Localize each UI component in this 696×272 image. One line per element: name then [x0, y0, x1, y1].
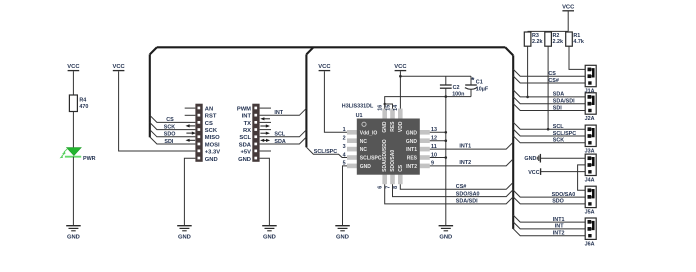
svg-text:VCC: VCC — [562, 4, 575, 10]
wire SDA to J2A pin1 — [513, 90, 588, 98]
wire bundle middle vertical — [306, 47, 313, 147]
svg-text:GND: GND — [524, 156, 536, 162]
svg-text:NC: NC — [360, 139, 368, 145]
svg-text:SDA/SDI/SDO: SDA/SDI/SDO — [382, 139, 388, 172]
ground GND3 — [262, 226, 277, 241]
svg-text:J5A: J5A — [585, 210, 595, 216]
wire VCC3 to U1 pin1 — [324, 71, 347, 132]
ground GND1 — [66, 226, 81, 241]
svg-text:470: 470 — [79, 104, 88, 110]
svg-text:CS: CS — [205, 121, 213, 127]
svg-text:SCL: SCL — [274, 132, 285, 138]
svg-text:SDA: SDA — [553, 92, 564, 98]
wire VCC4 to U1 pin14 and caps rail — [399, 71, 471, 109]
wire VCC5 to resistor rail — [528, 11, 569, 32]
svg-text:1: 1 — [343, 127, 346, 133]
jumper J3A — [585, 125, 597, 154]
svg-text:MISO: MISO — [205, 135, 220, 141]
wire INT2 to J6A pin3 — [513, 229, 588, 237]
arrow header1 CS (left) — [186, 124, 196, 127]
node VCC6 (J4A pin3, rotated) — [528, 168, 540, 176]
resistor R1 4.7k — [566, 32, 584, 46]
svg-text:SDA: SDA — [239, 142, 252, 148]
capacitor C2 100n — [440, 76, 465, 97]
svg-text:CS#: CS# — [456, 184, 467, 190]
wire AN stub — [185, 107, 196, 109]
svg-text:R3: R3 — [532, 33, 539, 39]
svg-text:15: 15 — [385, 105, 391, 111]
svg-text:AN: AN — [205, 106, 213, 112]
svg-text:SCL/SPC: SCL/SPC — [360, 156, 382, 162]
wire R3 to SDA net — [526, 46, 529, 98]
svg-text:3: 3 — [343, 144, 346, 150]
wire GND6 to J4A pin1 — [540, 157, 588, 159]
svg-text:2.2k: 2.2k — [553, 39, 564, 45]
svg-text:Vdd_IO: Vdd_IO — [360, 130, 378, 136]
arrow header2 RX (right) — [260, 132, 270, 135]
arrow header2 INT (left) — [260, 117, 270, 120]
wire CS# to J1A pin3 — [513, 76, 588, 84]
wire VCC1 to R4 — [72, 71, 74, 95]
svg-text:14: 14 — [393, 105, 399, 111]
svg-text:RST: RST — [205, 114, 217, 120]
wire SCK to J3A pin3 — [513, 136, 588, 144]
wire bundle right vertical — [512, 55, 514, 229]
svg-text:MOSI: MOSI — [205, 142, 220, 148]
resistor R3 2.2k — [524, 32, 542, 46]
svg-text:INT2: INT2 — [459, 160, 471, 166]
svg-text:R4: R4 — [79, 98, 86, 104]
svg-text:INT: INT — [274, 110, 283, 116]
wire PWM stub — [260, 107, 271, 109]
arrow header2 TX (right) — [260, 124, 270, 127]
node VCC2 (+3.3V) — [112, 64, 125, 70]
ground GND4 — [335, 226, 350, 241]
wire SDA from header2 to bundle — [260, 137, 307, 145]
svg-text:4.7k: 4.7k — [573, 39, 584, 45]
wire R1 to J1A pin1 — [569, 46, 588, 69]
svg-text:TX: TX — [244, 121, 252, 127]
jumper J5A — [585, 186, 597, 215]
wire SDI to header1 — [150, 137, 196, 145]
jumper J2A — [585, 93, 597, 122]
wire gnd drop to GND5 — [445, 95, 448, 225]
wire U1 pin13 to gnd drop — [430, 131, 446, 133]
svg-text:J2A: J2A — [585, 116, 595, 122]
svg-text:RES: RES — [407, 156, 418, 162]
wire LED to GND1 — [72, 157, 74, 226]
svg-text:2.2k: 2.2k — [532, 39, 543, 45]
wire SCL/SPC from bundle to U1 pin4 — [306, 147, 347, 157]
svg-text:SCL/SPC: SCL/SPC — [314, 149, 337, 155]
svg-text:RES: RES — [390, 121, 396, 132]
svg-text:C2: C2 — [453, 85, 460, 91]
wire CS to J1A pin2 — [513, 69, 588, 77]
svg-text:PWM: PWM — [237, 106, 251, 112]
svg-text:VCC: VCC — [528, 170, 539, 176]
wire SDA/SDI from U1 pin6 to bundle — [385, 184, 514, 205]
wire R2 to SCL net — [547, 46, 550, 130]
svg-text:R1: R1 — [573, 33, 580, 39]
op-amp U1 H3LIS331DL body — [342, 103, 437, 189]
svg-text:GND: GND — [406, 130, 418, 136]
svg-text:7: 7 — [385, 186, 391, 189]
svg-text:J4A: J4A — [585, 177, 595, 183]
node VCC3 (Vdd_IO) — [318, 64, 331, 70]
ground GND6 (J4A pin1, rotated) — [524, 154, 540, 163]
svg-text:H3LIS331DL: H3LIS331DL — [342, 103, 374, 109]
arrow header2 SDA (both) — [260, 139, 270, 142]
LED PWR — [60, 148, 96, 163]
wire SCL/SPC to J3A pin2 — [513, 129, 588, 137]
wire INT1 from U1 pin11 to bundle — [430, 142, 513, 149]
svg-text:10µF: 10µF — [476, 87, 489, 93]
jumper J6A — [585, 218, 597, 247]
svg-text:GND: GND — [178, 235, 191, 241]
svg-text:SDI: SDI — [164, 139, 173, 145]
svg-text:SDO/SA0: SDO/SA0 — [390, 150, 396, 172]
svg-text:INT2: INT2 — [553, 231, 565, 237]
arrow header1 MISO (left) — [186, 139, 196, 142]
svg-text:U1: U1 — [356, 113, 363, 119]
wire CS to header1 — [150, 115, 196, 123]
svg-text:CS#: CS# — [548, 78, 559, 84]
wire SCL to J3A pin1 — [513, 122, 588, 130]
svg-text:CS: CS — [548, 71, 556, 77]
svg-text:NC: NC — [360, 147, 368, 153]
jumper J1A — [585, 65, 597, 94]
svg-text:INT1: INT1 — [406, 147, 417, 153]
capacitor C1 10uF — [465, 76, 489, 96]
resistor R4 470 — [69, 95, 88, 112]
node VCC1 (LED supply) — [67, 64, 80, 70]
svg-text:SDO: SDO — [164, 132, 176, 138]
svg-text:VCC: VCC — [112, 64, 125, 70]
svg-text:CS: CS — [398, 164, 404, 172]
svg-text:SDA: SDA — [274, 139, 285, 145]
wire INT2 from U1 pin9 to bundle — [430, 159, 513, 166]
svg-text:SDO: SDO — [552, 199, 564, 205]
node VCC5 (pull-ups) — [562, 4, 575, 10]
header P2 (mikroBUS right) — [237, 104, 260, 163]
svg-text:GND: GND — [406, 139, 418, 145]
svg-text:GND: GND — [205, 157, 218, 163]
svg-text:16: 16 — [378, 105, 384, 111]
svg-text:CS: CS — [166, 117, 174, 123]
svg-text:VCC: VCC — [394, 64, 407, 70]
svg-text:PWR: PWR — [83, 156, 96, 162]
svg-text:VDD: VDD — [398, 121, 404, 132]
wire U1 pin5 to GND4 — [343, 166, 348, 225]
wire bundle top rail — [150, 47, 513, 55]
wire RX stub — [260, 129, 271, 131]
wire R4 to LED — [72, 112, 74, 148]
wire CS# from U1 pin8 to bundle — [400, 182, 513, 190]
svg-text:VCC: VCC — [67, 64, 80, 70]
svg-text:8: 8 — [393, 186, 399, 189]
wire bundle left vertical — [149, 54, 151, 137]
svg-text:VCC: VCC — [318, 64, 331, 70]
wire INT1 to J6A pin1 — [513, 215, 588, 223]
jumper J4A — [585, 154, 597, 183]
svg-text:J6A: J6A — [585, 241, 595, 247]
svg-text:GND: GND — [336, 235, 349, 241]
svg-text:GND: GND — [238, 157, 251, 163]
wire J4A pin2 to J5A pin1 — [578, 165, 589, 190]
wire SDI to J2A pin3 — [513, 104, 588, 112]
svg-text:SCL: SCL — [553, 124, 564, 130]
svg-text:5: 5 — [343, 161, 346, 167]
svg-text:GND: GND — [263, 235, 276, 241]
svg-text:INT1: INT1 — [553, 217, 565, 223]
svg-text:SDI: SDI — [553, 105, 562, 111]
wire TX stub — [260, 121, 271, 123]
svg-text:SCL: SCL — [239, 135, 251, 141]
wire SDO to J5A pin3 — [513, 197, 588, 205]
wire SDA/SDI to J2A pin2 — [513, 97, 588, 105]
wire SDO to header1 — [150, 130, 196, 138]
wire U1 pin12 to gnd drop — [430, 140, 446, 142]
svg-text:GND: GND — [439, 235, 452, 241]
svg-text:SDA/SDI: SDA/SDI — [456, 199, 478, 205]
svg-text:2: 2 — [343, 136, 346, 142]
wire INT from header2 to bundle — [260, 108, 307, 116]
wire VCC2 to +3.3V pin — [119, 71, 196, 151]
svg-text:6: 6 — [378, 186, 384, 189]
wire VCC6 to J4A pin3 — [541, 171, 589, 173]
wire +5V stub — [260, 150, 271, 152]
wire RST stub — [185, 114, 196, 116]
svg-text:GND: GND — [67, 235, 80, 241]
svg-text:INT: INT — [242, 114, 252, 120]
svg-text:INT: INT — [555, 224, 564, 230]
svg-text:+3.3V: +3.3V — [205, 150, 220, 156]
wire INT to J6A pin2 — [513, 222, 588, 230]
wire SCK to header1 — [150, 123, 196, 131]
svg-text:SDO/SA0: SDO/SA0 — [456, 191, 480, 197]
svg-text:+5V: +5V — [241, 150, 252, 156]
svg-text:SCK: SCK — [164, 124, 175, 130]
svg-text:INT2: INT2 — [406, 164, 417, 170]
svg-text:SCK: SCK — [553, 138, 564, 144]
svg-text:SDO/SA0: SDO/SA0 — [552, 192, 576, 198]
svg-text:INT1: INT1 — [459, 143, 471, 149]
arrow header1 SCK (right) — [186, 132, 196, 135]
wire header2 GND to GND3 — [260, 158, 270, 225]
wire header1 GND to GND2 — [184, 158, 195, 225]
ground GND2 — [177, 226, 192, 241]
svg-text:GND: GND — [360, 164, 372, 170]
resistor R2 2.2k — [545, 32, 563, 46]
wire SDO/SA0 from U1 pin7 to bundle — [393, 184, 514, 197]
node VCC4 (VDD) — [394, 64, 407, 70]
svg-text:GND: GND — [382, 121, 388, 133]
svg-text:SCK: SCK — [205, 128, 218, 134]
svg-text:R2: R2 — [553, 33, 560, 39]
wire caps ground rail to U1 pin16/pin15 — [384, 97, 472, 109]
header P1 (mikroBUS left) — [195, 104, 220, 163]
svg-text:SDA/SDI: SDA/SDI — [553, 99, 575, 105]
ground GND5 — [439, 226, 454, 241]
svg-text:100n: 100n — [452, 91, 464, 97]
wire SCL from header2 to bundle — [260, 130, 307, 138]
svg-text:RX: RX — [243, 128, 251, 134]
wire SDO/SA0 to J5A pin2 — [513, 190, 588, 198]
svg-text:J3A: J3A — [585, 148, 595, 154]
svg-text:SCL/SPC: SCL/SPC — [553, 131, 576, 137]
svg-text:4: 4 — [343, 152, 346, 158]
wire U1 pin10 to gnd drop — [430, 157, 446, 159]
svg-text:C1: C1 — [476, 79, 483, 85]
